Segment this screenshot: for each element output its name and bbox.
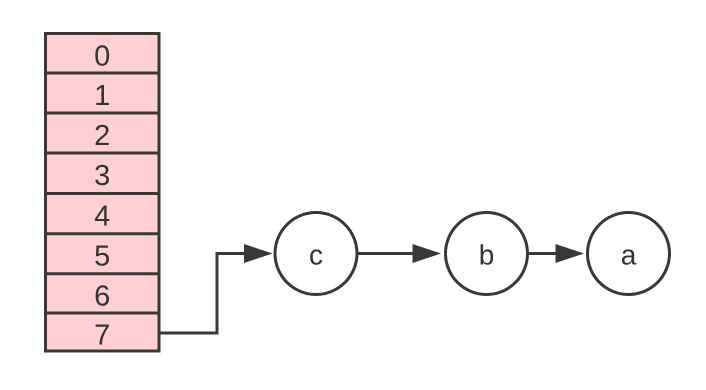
svg-text:a: a xyxy=(621,240,637,271)
row separators xyxy=(46,73,160,313)
circle a xyxy=(588,213,670,295)
svg-text:6: 6 xyxy=(94,281,110,313)
wire from slot 7 to circle c xyxy=(159,254,246,334)
svg-text:4: 4 xyxy=(94,200,110,232)
svg-text:2: 2 xyxy=(94,120,110,152)
array table fill xyxy=(46,34,160,352)
svg-text:7: 7 xyxy=(94,320,110,352)
svg-text:0: 0 xyxy=(94,40,110,72)
svg-text:1: 1 xyxy=(94,80,110,112)
table outer border xyxy=(46,34,160,352)
svg-text:3: 3 xyxy=(94,160,110,192)
arrow b to a xyxy=(528,252,558,255)
svg-text:5: 5 xyxy=(94,241,110,273)
circle c xyxy=(275,213,357,295)
digits xyxy=(94,40,110,351)
svg-text:b: b xyxy=(479,240,495,271)
svg-text:c: c xyxy=(309,240,323,271)
arrow c to b xyxy=(357,252,414,255)
circle b xyxy=(446,213,528,295)
